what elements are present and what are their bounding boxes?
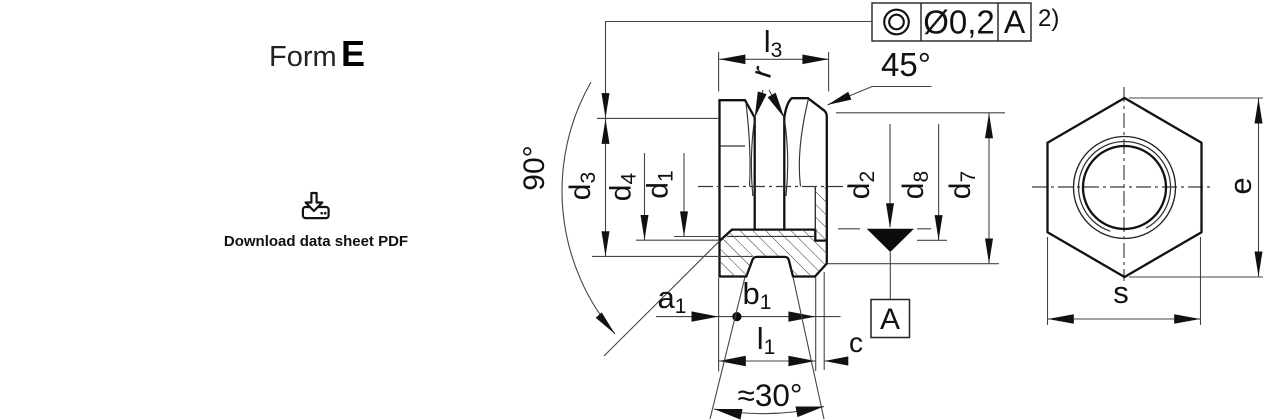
- centerlines hex view: [1032, 186, 1213, 188]
- 30 degree groove angle: [710, 277, 745, 419]
- svg-text:d2: d2: [843, 171, 879, 199]
- 90 degree cone angle: [562, 82, 615, 334]
- svg-text:d3: d3: [564, 172, 600, 200]
- svg-text:A: A: [880, 303, 900, 336]
- svg-text:d1: d1: [642, 170, 678, 198]
- dimension d3: [605, 119, 607, 257]
- svg-text:c: c: [849, 327, 863, 358]
- countersink circle: [1074, 137, 1176, 239]
- groove section trapezoid: [746, 257, 793, 277]
- svg-text:90°: 90°: [518, 145, 551, 190]
- dimension e: [1129, 98, 1263, 277]
- cone extension line: [604, 241, 720, 356]
- dimension s: [1048, 237, 1201, 325]
- svg-text:a1: a1: [658, 280, 687, 318]
- svg-text:Form: Form: [269, 41, 337, 73]
- svg-text:s: s: [1113, 275, 1129, 310]
- svg-text:b1: b1: [743, 276, 772, 314]
- svg-text:l1: l1: [757, 321, 776, 359]
- face curves: [746, 103, 750, 187]
- thread line: [727, 235, 814, 237]
- svg-text:d8: d8: [897, 171, 933, 199]
- dimension d4: [644, 153, 646, 240]
- dimension d2: [889, 124, 891, 227]
- svg-text:d7: d7: [944, 171, 980, 199]
- tolerance frame: [872, 3, 1031, 41]
- svg-text:Ø0,2: Ø0,2: [923, 4, 995, 41]
- svg-text:d4: d4: [605, 173, 641, 202]
- bore line: [732, 228, 815, 230]
- 45 degree chamfer leader: [828, 87, 932, 105]
- section hatching: [720, 230, 816, 277]
- svg-text:45°: 45°: [881, 46, 931, 83]
- frame leader: [606, 22, 873, 119]
- dimension d7: [988, 113, 990, 264]
- datum A box: [871, 300, 910, 338]
- svg-text:A: A: [1004, 4, 1026, 40]
- bore circle: [1083, 146, 1166, 229]
- radius r leaders: [755, 90, 763, 118]
- dimension d8: [938, 124, 940, 240]
- dimension l3: [719, 58, 828, 60]
- weld symbol: [867, 229, 914, 252]
- thread arc: [1079, 141, 1171, 231]
- svg-text:Download data sheet PDF: Download data sheet PDF: [224, 233, 408, 250]
- part outline: [718, 100, 720, 277]
- centerline main view: [698, 186, 856, 188]
- svg-text:e: e: [1223, 177, 1258, 194]
- hex nut outline: [1048, 98, 1202, 277]
- dimension a1 b1 line: [656, 316, 841, 318]
- dimension c: [824, 360, 848, 362]
- dimension d1: [683, 153, 685, 236]
- svg-text:2): 2): [1038, 5, 1059, 32]
- svg-text:r: r: [745, 62, 779, 82]
- svg-text:E: E: [341, 33, 365, 74]
- svg-text:≈30°: ≈30°: [738, 377, 803, 413]
- svg-text:l3: l3: [764, 24, 783, 62]
- hex flat edge: [720, 145, 746, 147]
- dimension l1: [719, 360, 816, 362]
- download icon: [303, 207, 329, 218]
- countersink cone: [720, 230, 733, 241]
